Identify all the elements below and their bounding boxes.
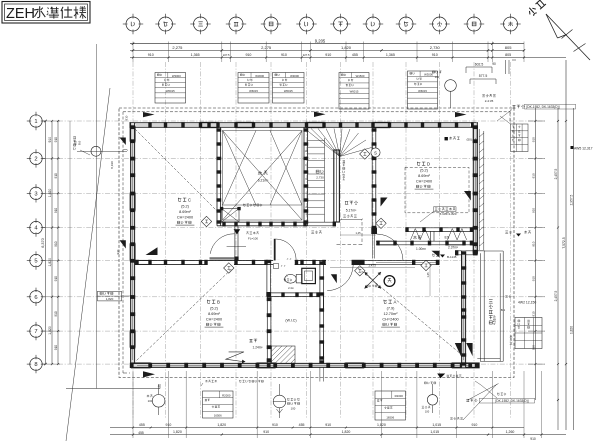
- svg-text:12.70m²: 12.70m²: [384, 312, 399, 316]
- svg-text:CH=2400: CH=2400: [206, 318, 222, 322]
- svg-text:C: C: [188, 197, 191, 202]
- svg-text:W6015: W6015: [418, 89, 427, 93]
- left dimension chains: [45, 121, 47, 364]
- exterior walls: bottom: [131, 363, 479, 367]
- svg-text:W3000: W3000: [424, 73, 433, 77]
- svg-text:90: 90: [492, 62, 496, 66]
- void (吹抜) walls: [216, 127, 218, 226]
- grid chain lines: [132, 62, 134, 418]
- dashed PV extent room D: [405, 167, 469, 213]
- svg-text:2,275: 2,275: [261, 45, 272, 50]
- door to room B: [273, 260, 295, 266]
- bottom right section circle: [427, 395, 437, 405]
- svg-text:455: 455: [299, 423, 305, 427]
- svg-text:227.5: 227.5: [223, 53, 230, 57]
- svg-text:1,473: 1,473: [368, 264, 376, 268]
- svg-text:S: S: [374, 151, 377, 156]
- solar panel label: [435, 208, 438, 210]
- svg-text:910: 910: [531, 311, 535, 316]
- svg-text:1,45: 1,45: [426, 272, 430, 278]
- svg-text:5.17m²: 5.17m²: [346, 209, 357, 213]
- svg-text:AW5 12,317: AW5 12,317: [574, 146, 593, 150]
- room B closet: [266, 297, 268, 364]
- hatched closet: [272, 346, 296, 364]
- exterior walls: right lower: [462, 251, 466, 368]
- roof eave dashed outline: [119, 108, 514, 378]
- svg-text:455: 455: [138, 431, 144, 435]
- svg-text:910: 910: [530, 437, 536, 441]
- bottom vent circle middle: [273, 395, 286, 408]
- svg-text:2,730: 2,730: [430, 45, 441, 50]
- svg-text:910: 910: [54, 241, 58, 247]
- title kanji: [34, 6, 45, 17]
- svg-text:16506: 16506: [214, 414, 222, 418]
- room A label: [384, 300, 387, 304]
- svg-text:1.24m²: 1.24m²: [253, 346, 263, 350]
- svg-text:910: 910: [74, 140, 78, 145]
- PV schedule table top right: [511, 124, 529, 152]
- svg-text:W3000: W3000: [172, 74, 181, 78]
- svg-text:910: 910: [54, 311, 58, 317]
- svg-text:455: 455: [139, 423, 145, 427]
- svg-text:B-1145: B-1145: [447, 255, 457, 259]
- room B label: [207, 300, 210, 304]
- svg-text:CH=2400: CH=2400: [382, 318, 398, 322]
- svg-text:2,457.5: 2,457.5: [554, 290, 558, 301]
- svg-text:805: 805: [505, 45, 512, 50]
- svg-text:W6015: W6015: [166, 89, 175, 93]
- svg-text:8: 8: [34, 362, 37, 368]
- WC room: [266, 260, 268, 296]
- stair bottom wall: [308, 221, 336, 223]
- svg-text:4.61m²: 4.61m²: [493, 315, 497, 325]
- left small label boxes: [98, 291, 122, 301]
- balcony label: [489, 300, 493, 304]
- PV label top right: [512, 105, 515, 108]
- diamond markers: [355, 266, 365, 276]
- svg-text:8.69m²: 8.69m²: [418, 174, 431, 178]
- svg-text:1,820: 1,820: [342, 430, 351, 434]
- svg-text:5: 5: [34, 259, 37, 265]
- svg-text:910: 910: [54, 345, 58, 351]
- svg-text:1,015: 1,015: [430, 430, 439, 434]
- svg-text:W6015: W6015: [284, 89, 293, 93]
- svg-text:6,370: 6,370: [41, 238, 45, 248]
- svg-text:2-4:35: 2-4:35: [485, 99, 494, 103]
- svg-text:1,820: 1,820: [173, 430, 182, 434]
- svg-text:1,820: 1,820: [48, 189, 52, 198]
- top dimension chain: [130, 43, 524, 45]
- svg-text:910: 910: [54, 137, 58, 143]
- svg-text:910: 910: [116, 249, 120, 254]
- svg-text:1: 1: [34, 119, 37, 125]
- title box ZEH: [2, 2, 90, 24]
- svg-text:910: 910: [531, 208, 535, 213]
- svg-text:[DK-1552, DK-1633(D)]: [DK-1552, DK-1633(D)]: [526, 105, 559, 109]
- roof slope arrows: [143, 112, 155, 117]
- svg-text:(5.2): (5.2): [210, 306, 219, 310]
- svg-text:R2000: R2000: [395, 394, 404, 398]
- bottom dimension rows: [110, 427, 524, 429]
- svg-text:910: 910: [281, 53, 287, 57]
- left grid circles 1-8: [30, 115, 42, 127]
- svg-text:2,457.5: 2,457.5: [554, 168, 558, 179]
- right wall jog: [455, 250, 485, 252]
- right dimension chains: [535, 108, 537, 400]
- svg-text:(50): (50): [467, 138, 472, 142]
- svg-text:A: A: [394, 299, 397, 304]
- svg-text:B-1: B-1: [501, 308, 506, 312]
- svg-text:1,015: 1,015: [432, 423, 441, 427]
- lawn label: [246, 232, 248, 234]
- right schedule table: [515, 318, 542, 349]
- svg-text:1,365: 1,365: [191, 53, 200, 57]
- closet/ES row walls (top of room A): [406, 227, 474, 229]
- svg-text:6: 6: [34, 295, 37, 301]
- svg-text:9,205: 9,205: [315, 38, 326, 43]
- svg-text:2,957.5: 2,957.5: [569, 194, 573, 205]
- svg-text:910: 910: [325, 53, 331, 57]
- left sub-grid circle: [91, 146, 101, 156]
- svg-text:2.4m: 2.4m: [288, 286, 294, 290]
- svg-text:910: 910: [432, 53, 438, 57]
- svg-text:910: 910: [272, 423, 278, 427]
- svg-text:2.37m²: 2.37m²: [448, 246, 458, 250]
- svg-text:1,820: 1,820: [106, 297, 114, 301]
- svg-text:1,820: 1,820: [569, 326, 573, 334]
- svg-text:910: 910: [531, 173, 535, 178]
- svg-text:1,45: 1,45: [355, 231, 361, 235]
- wall between hall and room D: [371, 127, 373, 229]
- svg-text:B: B: [217, 299, 220, 304]
- svg-text:910: 910: [54, 208, 58, 214]
- svg-text:7,572.5: 7,572.5: [562, 237, 566, 248]
- svg-text:(7.9): (7.9): [387, 306, 396, 310]
- void X braces: [223, 131, 303, 221]
- svg-text:100: 100: [435, 75, 440, 79]
- svg-text:4W2 12,150: 4W2 12,150: [518, 300, 536, 304]
- leader lines bottom right: [468, 384, 499, 400]
- svg-text:910: 910: [78, 140, 82, 145]
- svg-text:910: 910: [245, 53, 251, 57]
- svg-text:(5.2): (5.2): [181, 204, 190, 208]
- svg-text:W6015: W6015: [249, 89, 258, 93]
- hall dashed upper cabinet: [361, 222, 363, 245]
- hall label: [345, 201, 348, 204]
- svg-text:R2000: R2000: [222, 393, 231, 397]
- toilet fixture: [285, 274, 297, 283]
- PV roof hatch strip: [478, 129, 480, 250]
- bottom schedule box left: [203, 391, 234, 418]
- svg-text:805: 805: [505, 53, 511, 57]
- svg-text:1,820: 1,820: [48, 258, 52, 267]
- svg-text:910: 910: [148, 53, 154, 57]
- svg-text:910: 910: [54, 173, 58, 179]
- svg-text:5.105×1.820: 5.105×1.820: [440, 212, 457, 216]
- svg-text:910: 910: [471, 423, 477, 427]
- svg-text:910: 910: [54, 276, 58, 282]
- svg-text:2: 2: [34, 157, 37, 163]
- svg-text:2,730: 2,730: [316, 176, 324, 180]
- svg-text:100: 100: [425, 410, 430, 414]
- svg-text:D: D: [427, 161, 430, 166]
- section line: [66, 88, 110, 441]
- svg-text:1,260: 1,260: [506, 430, 515, 434]
- vent circle top: [445, 80, 457, 92]
- bottom PV label: [466, 399, 469, 402]
- svg-text:910: 910: [125, 115, 129, 120]
- svg-text:910: 910: [531, 137, 535, 142]
- svg-text:W1500: W1500: [356, 74, 365, 78]
- exterior walls: top: [130, 122, 479, 124]
- svg-text:CH=2400: CH=2400: [177, 216, 193, 220]
- svg-text:[DK-1552, DK-1633(D)]: [DK-1552, DK-1633(D)]: [495, 399, 528, 403]
- top grid circles: [126, 17, 140, 31]
- window schedule boxes top: [155, 73, 186, 104]
- svg-text:227.5: 227.5: [303, 53, 310, 57]
- svg-text:16506: 16506: [386, 416, 394, 420]
- wall C corridor vertical: [234, 226, 236, 260]
- svg-text:(W.I.C): (W.I.C): [285, 319, 296, 323]
- svg-text:7: 7: [34, 329, 37, 335]
- svg-text:910: 910: [531, 241, 535, 246]
- svg-text:1,365: 1,365: [386, 53, 395, 57]
- exterior walls: left: [131, 123, 135, 368]
- svg-text:100: 100: [148, 399, 153, 403]
- svg-text:FL=100: FL=100: [248, 237, 258, 241]
- north arrow 真北: [526, 0, 546, 17]
- svg-text:3: 3: [34, 191, 37, 197]
- interior dim lines: [330, 267, 415, 269]
- left frame verticals: [69, 121, 71, 364]
- svg-text:1,820: 1,820: [217, 423, 226, 427]
- svg-text:W6015: W6015: [350, 90, 359, 94]
- wall C/B corridor y260.4: [135, 259, 234, 261]
- svg-text:910: 910: [48, 137, 52, 143]
- svg-text:8.69m²: 8.69m²: [208, 312, 221, 316]
- south 50mm label: [445, 137, 448, 140]
- svg-text:8.69m²: 8.69m²: [179, 210, 192, 214]
- svg-text:910: 910: [325, 423, 331, 427]
- svg-text:ES: ES: [445, 236, 450, 240]
- door to room C: [210, 257, 235, 259]
- small X closet near void bottom: [222, 209, 240, 223]
- stairs: [308, 131, 340, 157]
- svg-text:8,190: 8,190: [110, 161, 114, 169]
- svg-text:1,820: 1,820: [341, 45, 352, 50]
- svg-text:CH=2400: CH=2400: [416, 180, 432, 184]
- svg-text:577.5: 577.5: [479, 74, 488, 78]
- svg-text:6.21m²: 6.21m²: [258, 179, 269, 183]
- right lower labels: [505, 295, 508, 297]
- bottom tiny labels: [205, 380, 207, 382]
- svg-text:455: 455: [352, 53, 358, 57]
- balcony outline: [479, 253, 481, 361]
- svg-text:910: 910: [531, 276, 535, 281]
- svg-text:1,820: 1,820: [48, 326, 52, 335]
- laundry area fixtures: [352, 263, 354, 266]
- svg-text:W3000: W3000: [255, 74, 264, 78]
- svg-text:1.00m²: 1.00m²: [416, 247, 426, 251]
- brace diagonals dashed: [135, 129, 217, 211]
- bottom extension line: [66, 388, 160, 390]
- svg-text:2,275: 2,275: [172, 45, 183, 50]
- svg-text:(5.2): (5.2): [420, 168, 429, 172]
- room C label: [178, 198, 181, 202]
- svg-text:910: 910: [263, 430, 269, 434]
- exterior walls: right upper: [473, 123, 477, 255]
- bottom vent circle left: [152, 395, 165, 408]
- svg-text:100: 100: [291, 407, 296, 411]
- room D label: [417, 162, 420, 166]
- svg-text:W3000: W3000: [290, 74, 299, 78]
- bottom schedule box middle: [375, 391, 406, 420]
- svg-text:ZEH: ZEH: [6, 6, 35, 22]
- svg-text:602.5: 602.5: [475, 62, 484, 66]
- left tiny label y150: [73, 137, 76, 139]
